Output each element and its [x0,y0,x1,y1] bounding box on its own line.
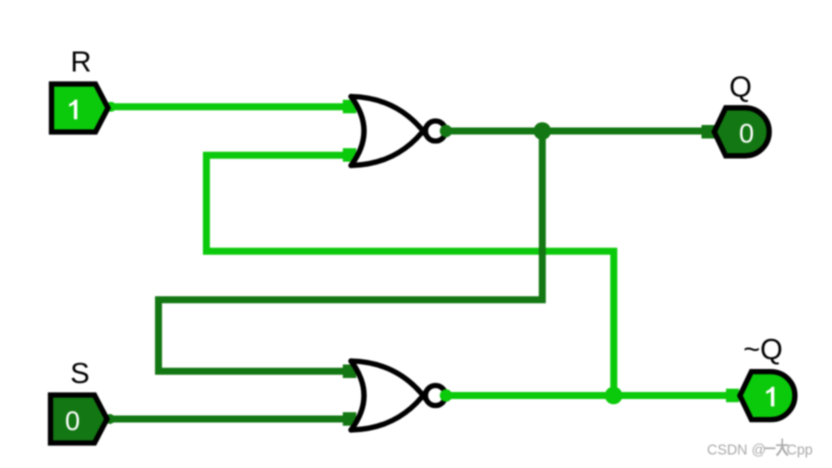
input R box [52,84,109,132]
wire R input to U1 pin A [108,103,350,110]
svg-text:Q: Q [729,72,752,104]
svg-text:~Q: ~Q [743,334,783,366]
NOR gate U2 bubble [426,386,446,406]
watermark CSDN @一大Cpp [707,439,813,459]
svg-text:Cpp: Cpp [787,443,813,459]
svg-text:R: R [71,47,92,79]
wire U2 output to ~Q [446,392,733,399]
svg-text:0: 0 [739,119,754,149]
input S box [51,395,108,443]
glyph 一 [765,447,776,449]
output ~Q box [740,372,795,420]
pin U2 B square [343,412,357,426]
wire feedback net ~Q to U1 pin B [206,155,613,395]
wire U1 output to Q [446,128,708,135]
output Q stub [702,125,715,139]
NOR gate U2 body [351,361,427,430]
output ~Q stub [726,389,739,403]
wire S input to U2 pin B [107,416,350,423]
glyph 大 [776,439,789,457]
value R = 1 [69,100,77,120]
node U2 output cap [440,389,452,401]
node U1 output cap [440,125,452,137]
node S output cap [105,414,115,424]
pin U1 B square [343,148,357,162]
svg-text:CSDN @: CSDN @ [707,443,766,459]
pin U1 A square [343,100,357,114]
wire Q net to U2 pin A [159,131,543,371]
svg-text:0: 0 [65,406,80,436]
NOR gate U1 bubble [426,121,446,141]
value ~Q = 1 [766,387,774,407]
output Q box [714,108,769,156]
svg-text:S: S [70,358,89,390]
node R output cap [106,102,116,112]
NOR gate U1 body [351,97,427,166]
node junction Q net [534,122,552,140]
node junction ~Q net [605,387,623,405]
pin U2 A square [343,365,357,379]
